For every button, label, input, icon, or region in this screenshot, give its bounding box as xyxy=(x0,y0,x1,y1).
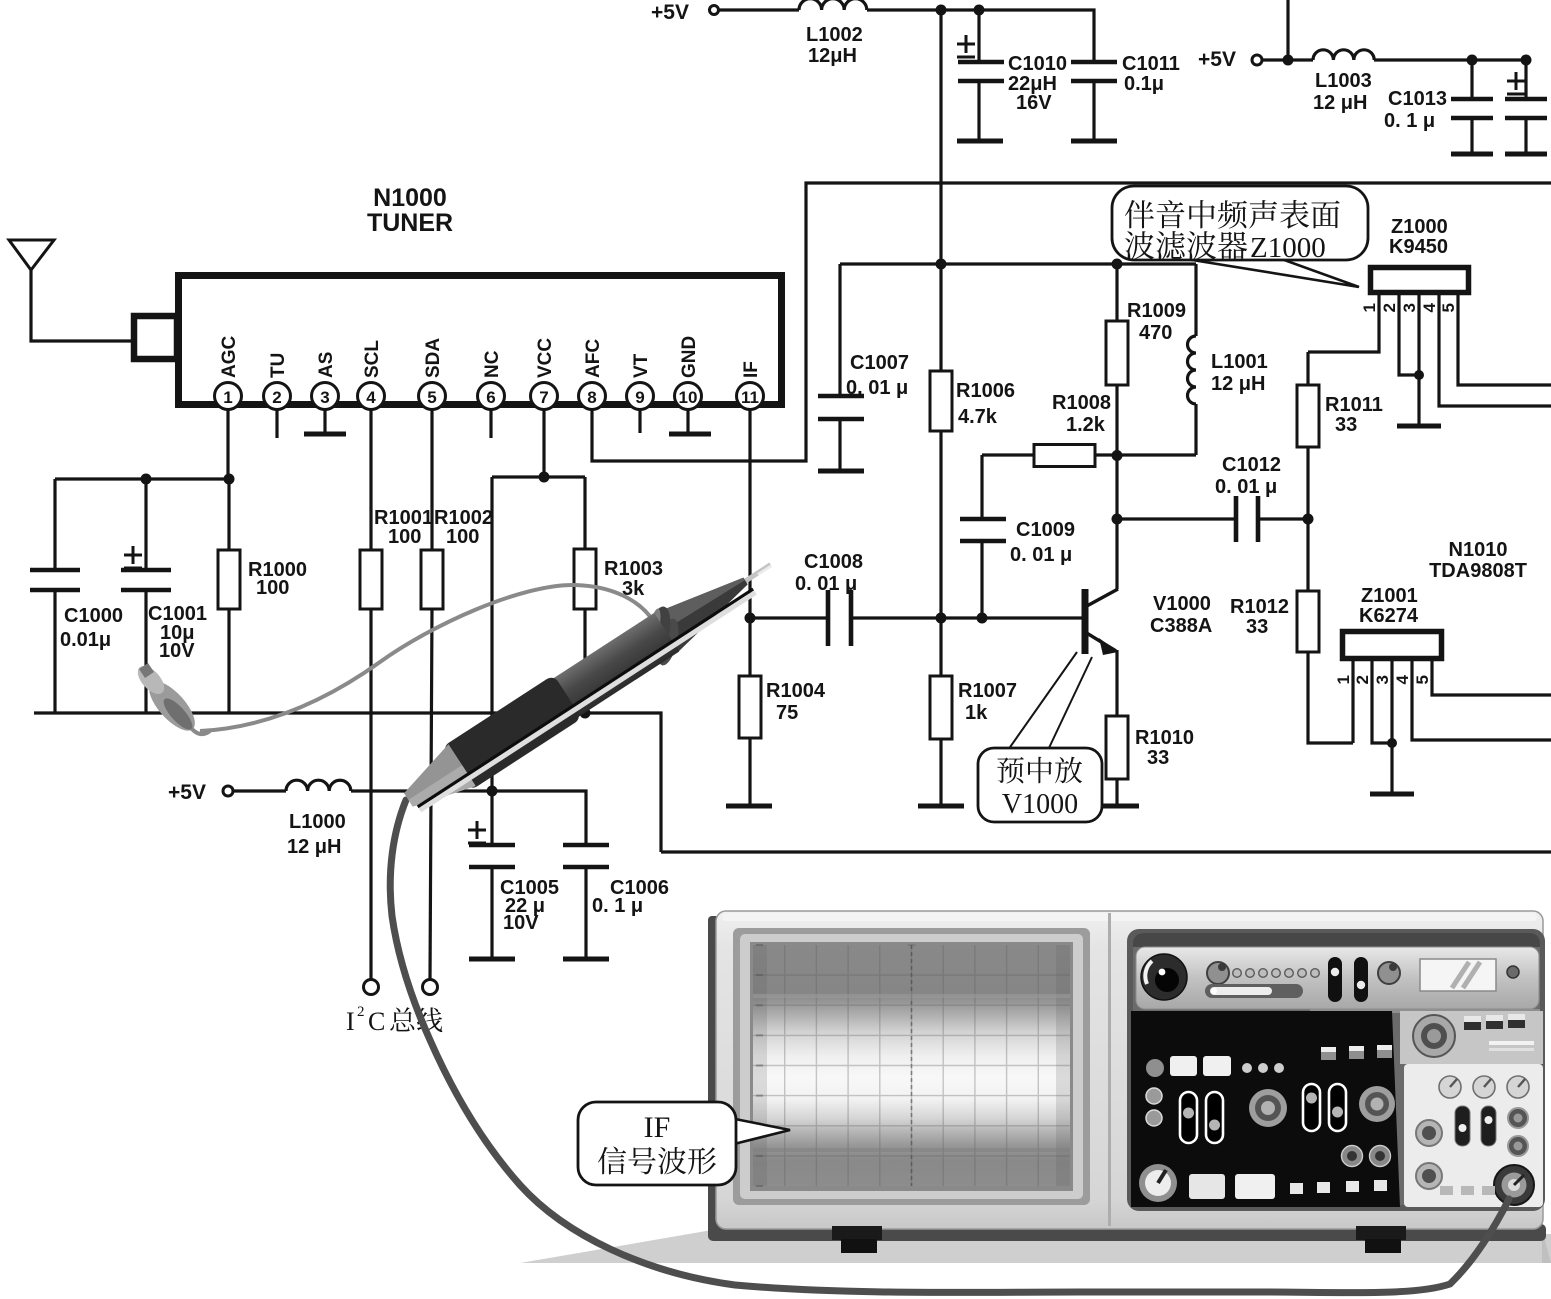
node base-R1006 xyxy=(936,613,947,624)
resistor R1008 xyxy=(1034,445,1095,467)
svg-text:12μH: 12μH xyxy=(808,45,857,67)
svg-text:5: 5 xyxy=(1413,675,1432,684)
antenna xyxy=(9,240,54,270)
tuner pin 10 (GND) xyxy=(675,383,702,410)
node at 979 xyxy=(974,5,985,16)
capacitor C1005 xyxy=(490,791,493,845)
Z1001 pin 2 xyxy=(1372,659,1392,743)
svg-text:33: 33 xyxy=(1147,747,1169,769)
svg-text:7: 7 xyxy=(539,388,548,407)
node R1003 bottom xyxy=(580,708,591,719)
svg-text:100: 100 xyxy=(256,577,289,599)
svg-text:4: 4 xyxy=(1420,302,1439,312)
horizontal slot xyxy=(1205,984,1303,998)
Z1000 pin 2 xyxy=(1399,293,1419,375)
svg-text:0. 1 μ: 0. 1 μ xyxy=(592,895,643,917)
svg-text:+5V: +5V xyxy=(651,1,689,24)
capacitor C1008 xyxy=(828,590,851,646)
svg-text:C: C xyxy=(368,1007,385,1036)
wire AGC top xyxy=(55,477,230,480)
svg-text:L1002: L1002 xyxy=(806,24,863,46)
svg-text:0.1μ: 0.1μ xyxy=(1124,73,1164,95)
svg-text:C1011: C1011 xyxy=(1122,53,1180,75)
tuner pin 9 (VT) xyxy=(627,383,654,410)
svg-text:C1000: C1000 xyxy=(64,605,123,627)
svg-text:R1008: R1008 xyxy=(1052,392,1111,414)
resistor R1004 xyxy=(748,618,751,676)
wire C1008 to base xyxy=(851,616,1083,619)
svg-text:N1000: N1000 xyxy=(373,184,447,212)
probe cable xyxy=(390,800,1509,1293)
svg-text:C1010: C1010 xyxy=(1008,53,1067,75)
pilot light xyxy=(1507,966,1519,978)
power knob xyxy=(1141,954,1187,1000)
tuner pin9 stub xyxy=(638,409,641,433)
tuner pin 7 (VCC) xyxy=(531,383,558,410)
scope right panel xyxy=(1127,929,1545,1211)
scope feet xyxy=(832,1226,882,1240)
I2C terminal 2 xyxy=(423,980,438,995)
node pin11/C1008 xyxy=(745,613,756,624)
svg-text:V1000: V1000 xyxy=(1002,789,1078,820)
ground bus left xyxy=(34,713,661,852)
wire vcc horizontal xyxy=(492,475,585,478)
svg-text:C1009: C1009 xyxy=(1016,519,1075,541)
resistor R1001 xyxy=(369,409,372,550)
slider 2 xyxy=(1354,957,1368,1002)
svg-text:I: I xyxy=(346,1007,355,1036)
node cap right xyxy=(1521,55,1532,66)
svg-text:0. 01 μ: 0. 01 μ xyxy=(795,573,857,595)
Z1000 pin 3 xyxy=(1417,293,1420,425)
probe collar flange xyxy=(653,617,682,668)
wire to C1008 xyxy=(750,616,826,619)
node R1011/C1012 xyxy=(1303,514,1314,525)
big knob mid xyxy=(1413,1015,1455,1057)
node R1009 top xyxy=(1112,259,1123,270)
resistor R1010 xyxy=(1106,716,1128,779)
svg-text:TUNER: TUNER xyxy=(367,209,453,237)
svg-text:12 μH: 12 μH xyxy=(287,836,341,858)
svg-text:R1011: R1011 xyxy=(1325,394,1383,416)
svg-text:C388A: C388A xyxy=(1150,615,1212,637)
svg-text:16V: 16V xyxy=(1016,92,1052,114)
svg-text:N1010: N1010 xyxy=(1449,539,1508,561)
svg-text:IF: IF xyxy=(741,361,762,378)
svg-text:TDA9808T: TDA9808T xyxy=(1429,560,1527,582)
svg-text:1: 1 xyxy=(223,388,232,407)
svg-text:6: 6 xyxy=(486,388,495,407)
svg-text:0. 1 μ: 0. 1 μ xyxy=(1384,110,1435,132)
capacitor C1007 xyxy=(838,264,841,396)
svg-text:33: 33 xyxy=(1246,616,1268,638)
svg-text:C1012: C1012 xyxy=(1222,454,1281,476)
svg-text:K6274: K6274 xyxy=(1359,605,1419,627)
svg-text:4.7k: 4.7k xyxy=(958,406,998,428)
resistor R1011 xyxy=(1306,352,1309,385)
svg-text:4: 4 xyxy=(366,388,376,407)
svg-text:3: 3 xyxy=(1400,303,1419,312)
wire R1008 net xyxy=(982,453,1034,456)
capacitor C1006 xyxy=(563,845,609,867)
wire pin1 down xyxy=(226,409,229,479)
svg-text:AGC: AGC xyxy=(219,336,240,379)
inductor L1000 xyxy=(286,780,351,791)
tuner pin2 stub xyxy=(275,409,278,438)
wire down from L1002 node xyxy=(939,10,942,264)
inductor L1003 xyxy=(1313,50,1374,60)
svg-text:5: 5 xyxy=(427,388,436,407)
wire +5V right xyxy=(1262,58,1313,61)
resistor R1007 xyxy=(939,618,942,676)
wire collector xyxy=(1115,455,1118,589)
svg-text:3: 3 xyxy=(1373,675,1392,684)
svg-text:Z1000: Z1000 xyxy=(1391,216,1448,238)
svg-text:TU: TU xyxy=(268,353,289,378)
node R1006 top xyxy=(936,259,947,270)
svg-text:AS: AS xyxy=(316,352,337,378)
svg-text:R1009: R1009 xyxy=(1127,300,1186,322)
svg-text:C1008: C1008 xyxy=(804,551,863,573)
wire L1000 right xyxy=(351,791,586,845)
tuner pin 3 (AS) xyxy=(312,383,339,410)
capacitor C1001 xyxy=(144,479,147,570)
tuner pin 8 (AFC) xyxy=(579,383,606,410)
tuner N1000 xyxy=(179,276,782,405)
capacitor C1010 xyxy=(977,10,980,62)
inductor L1002 xyxy=(799,0,867,10)
svg-text:R1003: R1003 xyxy=(604,558,663,580)
svg-text:Z1000: Z1000 xyxy=(1250,232,1326,264)
svg-text:SDA: SDA xyxy=(423,338,444,378)
node collector/C1012 xyxy=(1112,514,1123,525)
bottom bus xyxy=(661,850,1551,853)
tuner pin 1 (AGC) xyxy=(215,383,242,410)
svg-text:9: 9 xyxy=(635,388,644,407)
wire +5V to L1002 xyxy=(719,8,800,11)
svg-text:IF: IF xyxy=(644,1111,671,1144)
resistor R1003 xyxy=(583,477,586,549)
node C1013 xyxy=(1467,55,1478,66)
SAW filter Z1001 xyxy=(1343,632,1442,659)
svg-text:1: 1 xyxy=(1360,303,1379,312)
Z1000 pin 5 xyxy=(1458,293,1551,385)
wire VCC pin7 xyxy=(542,409,545,477)
svg-text:0. 01 μ: 0. 01 μ xyxy=(846,377,908,399)
node R1000 top xyxy=(224,474,235,485)
resistor R1006 xyxy=(939,264,942,371)
tuner pin 11 (IF) xyxy=(737,383,764,410)
transistor V1000 xyxy=(1082,589,1089,654)
indicator dots xyxy=(1233,969,1242,978)
svg-text:1.2k: 1.2k xyxy=(1066,414,1106,436)
wire from top edge xyxy=(1286,0,1289,60)
alligator clip xyxy=(133,661,210,737)
svg-text:3: 3 xyxy=(320,388,329,407)
Z1001 pin 4 xyxy=(1412,659,1551,740)
SAW filter Z1000 xyxy=(1371,268,1469,293)
grille xyxy=(1489,1041,1534,1045)
oscilloscope xyxy=(520,1230,1551,1263)
node C1005 xyxy=(487,786,498,797)
node R1008-R1009 xyxy=(1112,450,1123,461)
svg-text:0.01μ: 0.01μ xyxy=(60,629,111,651)
svg-text:L1003: L1003 xyxy=(1315,70,1372,92)
svg-text:470: 470 xyxy=(1139,322,1172,344)
node C1001 top xyxy=(141,474,152,485)
knob small A xyxy=(1207,962,1229,984)
svg-text:C1007: C1007 xyxy=(850,352,909,374)
svg-text:8: 8 xyxy=(587,388,596,407)
resistor R1012 xyxy=(1297,591,1319,652)
antenna connector xyxy=(134,316,177,359)
svg-text:L1000: L1000 xyxy=(289,811,346,833)
svg-text:V1000: V1000 xyxy=(1153,593,1211,615)
tuner pin6 stub xyxy=(489,409,492,438)
wire AFC pin8 xyxy=(592,183,1551,461)
Z1001 pin 3 xyxy=(1390,659,1393,793)
capacitor C1011 xyxy=(1071,62,1117,81)
svg-text:2: 2 xyxy=(272,388,281,407)
svg-text:10V: 10V xyxy=(159,640,195,662)
svg-text:1: 1 xyxy=(1334,675,1353,684)
svg-text:L1001: L1001 xyxy=(1211,351,1268,373)
svg-text:100: 100 xyxy=(388,526,421,548)
wire to L1000 xyxy=(233,789,286,792)
capacitor C1000 xyxy=(53,479,56,570)
knob small B xyxy=(1378,962,1400,984)
Z1000 pin 1 xyxy=(1308,293,1379,352)
svg-text:33: 33 xyxy=(1335,414,1357,436)
svg-text:NC: NC xyxy=(482,350,503,378)
svg-text:GND: GND xyxy=(679,336,700,378)
svg-text:R1006: R1006 xyxy=(956,380,1015,402)
svg-text:2: 2 xyxy=(1353,675,1372,684)
svg-text:12 μH: 12 μH xyxy=(1211,373,1265,395)
capacitor C1013 xyxy=(1470,60,1473,99)
3d buttons xyxy=(1464,1016,1481,1030)
svg-text:R1004: R1004 xyxy=(766,680,826,702)
capacitor C1009 xyxy=(980,455,983,519)
svg-text:R1012: R1012 xyxy=(1230,596,1289,618)
svg-text:11: 11 xyxy=(741,388,759,407)
tuner pin 5 (SDA) xyxy=(419,383,446,410)
wire L1003 to caps xyxy=(1374,58,1526,61)
slider 1 xyxy=(1328,957,1342,1002)
svg-text:K9450: K9450 xyxy=(1389,236,1448,258)
tuner pin 6 (NC) xyxy=(478,383,505,410)
svg-text:10: 10 xyxy=(679,388,698,407)
node at 941 xyxy=(936,5,947,16)
tuner pin 4 (SCL) xyxy=(358,383,385,410)
resistor R1009 xyxy=(1115,264,1118,321)
tuner pin 2 (TU) xyxy=(264,383,291,410)
wire L1002 to C1011 xyxy=(867,10,1094,60)
display window xyxy=(1420,959,1496,991)
white sub panel xyxy=(1404,1064,1543,1207)
callout: SAW filter note xyxy=(1180,252,1359,287)
svg-text:C1013: C1013 xyxy=(1388,88,1447,110)
wire bus y264 xyxy=(840,262,1196,265)
tuner pin3 ground xyxy=(323,409,326,433)
svg-text:VCC: VCC xyxy=(535,338,556,378)
inductor L1001 xyxy=(1194,264,1197,336)
svg-text:VT: VT xyxy=(631,353,652,378)
black control panel xyxy=(1131,1011,1400,1207)
svg-text:2: 2 xyxy=(357,1004,365,1020)
electrolytic cap right edge xyxy=(1524,60,1527,99)
svg-text:1k: 1k xyxy=(965,702,988,724)
Z1001 pin 5 xyxy=(1432,659,1551,695)
Z1000 pin 4 xyxy=(1439,293,1551,406)
svg-text:2: 2 xyxy=(1380,303,1399,312)
BNC connector xyxy=(1494,1165,1534,1205)
wire vcc down to +5V node xyxy=(490,477,493,791)
node C1009 base xyxy=(977,613,988,624)
probe ground lead xyxy=(200,585,654,731)
svg-text:R1010: R1010 xyxy=(1135,727,1194,749)
svg-text:AFC: AFC xyxy=(583,339,604,378)
svg-text:100: 100 xyxy=(446,526,479,548)
wire IF pin11 xyxy=(748,409,751,618)
svg-text:SCL: SCL xyxy=(362,340,383,378)
svg-text:+5V: +5V xyxy=(1198,48,1236,71)
I2C terminal 1 xyxy=(364,980,379,995)
svg-text:0. 01 μ: 0. 01 μ xyxy=(1010,544,1072,566)
node 1288 xyxy=(1283,55,1294,66)
capacitor C1012 xyxy=(1236,496,1258,542)
svg-text:+5V: +5V xyxy=(168,781,206,804)
svg-text:5: 5 xyxy=(1439,303,1458,312)
svg-text:12 μH: 12 μH xyxy=(1313,92,1367,114)
callout: IF waveform xyxy=(730,1118,790,1145)
svg-text:Z1001: Z1001 xyxy=(1361,585,1418,607)
svg-text:R1007: R1007 xyxy=(958,680,1017,702)
CRT screen xyxy=(733,928,1090,1205)
wire emitter xyxy=(1115,650,1118,716)
svg-text:75: 75 xyxy=(776,702,798,724)
svg-text:4: 4 xyxy=(1393,674,1412,684)
svg-text:0. 01 μ: 0. 01 μ xyxy=(1215,476,1277,498)
resistor R1000 xyxy=(227,479,230,550)
wire C1012 xyxy=(1117,517,1236,520)
callout: preamp note xyxy=(1008,652,1092,750)
svg-text:10V: 10V xyxy=(503,912,539,934)
oscilloscope probe xyxy=(653,545,784,652)
resistor R1002 xyxy=(430,409,433,550)
Z1001 pin 1 xyxy=(1351,659,1354,743)
tuner pin10 ground xyxy=(686,409,689,433)
